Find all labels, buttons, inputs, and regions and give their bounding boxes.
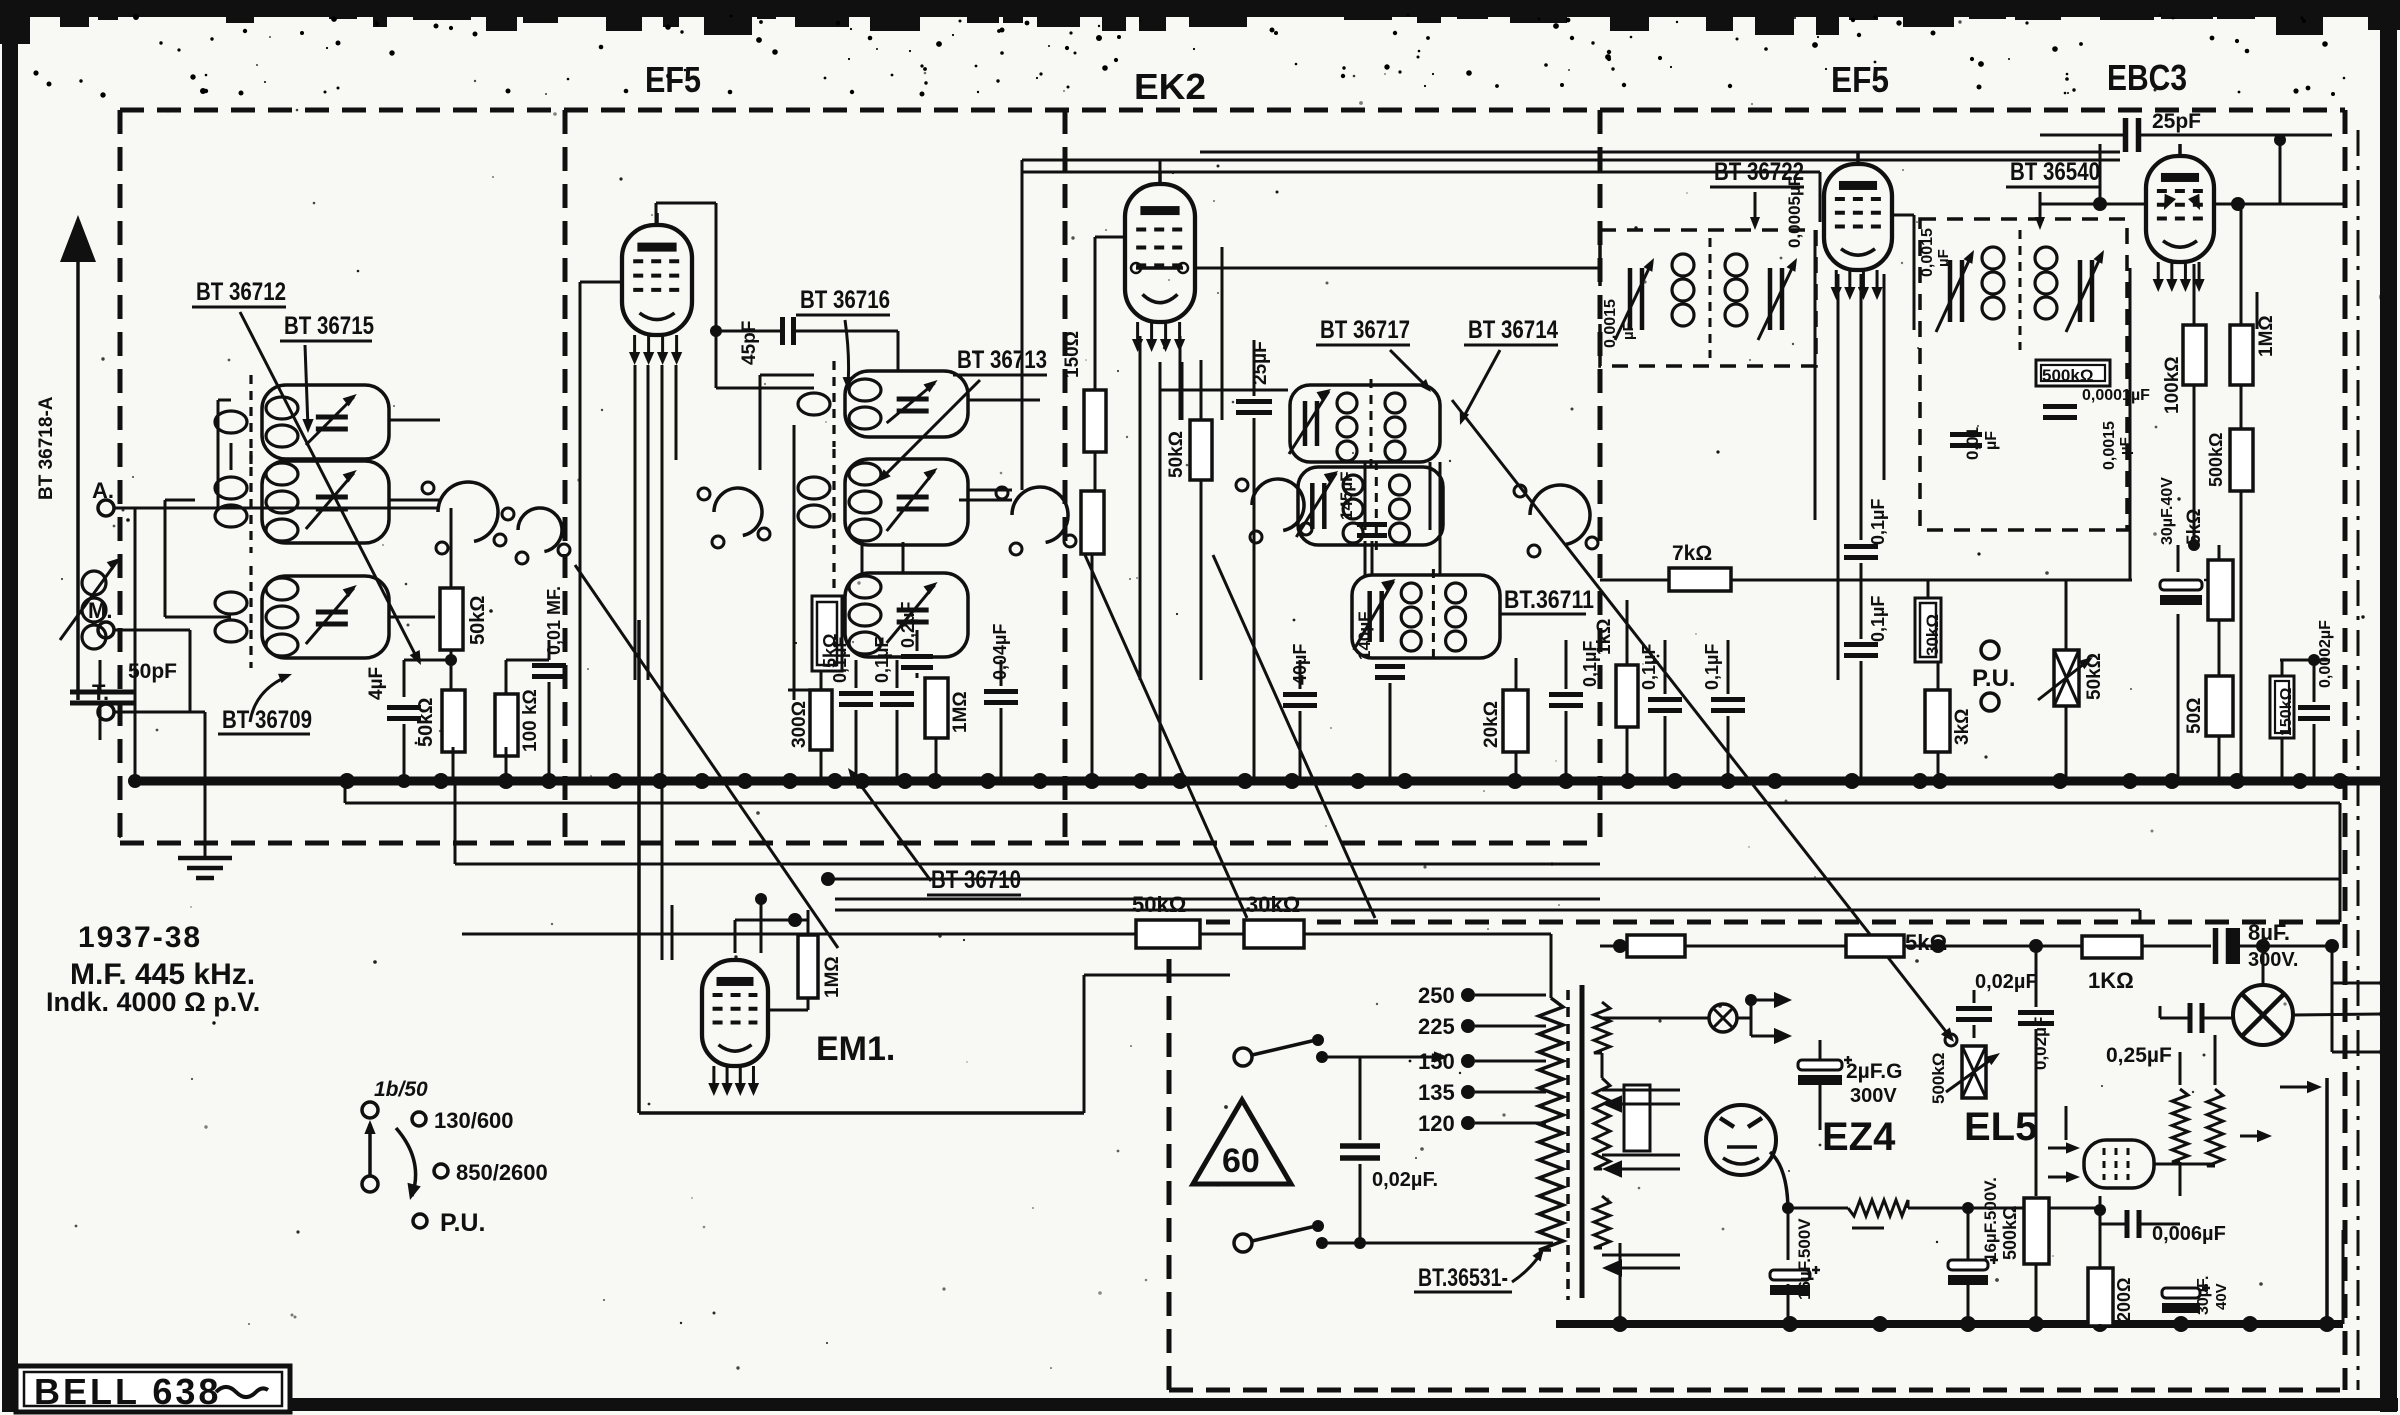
capacitor 25pF xyxy=(2123,118,2129,152)
heater wires xyxy=(1602,1089,1680,1092)
svg-text:µF: µF xyxy=(1620,322,1637,340)
svg-text:145µF: 145µF xyxy=(1337,471,1356,520)
svg-text:BT 36709: BT 36709 xyxy=(222,706,312,734)
svg-text:0,006µF: 0,006µF xyxy=(2152,1223,2226,1245)
capacitor 0.02 a xyxy=(1956,1006,1992,1011)
zigzag resistor b xyxy=(2207,1089,2223,1166)
svg-text:140µF: 140µF xyxy=(1355,611,1374,660)
wire B+ xyxy=(1600,945,1627,948)
wire EM1 feed xyxy=(1084,974,1230,977)
pointer BT 36712 xyxy=(240,312,418,660)
svg-text:20kΩ: 20kΩ xyxy=(1481,701,1502,748)
terminal PU xyxy=(1981,641,1999,659)
pointer BT 36713 xyxy=(882,380,980,478)
band switch socket S1 xyxy=(438,482,498,541)
svg-text:45pF: 45pF xyxy=(739,321,760,365)
rectifier winding rect xyxy=(1624,1085,1650,1151)
resistor 500k right xyxy=(2230,429,2253,491)
svg-text:0,1µF: 0,1µF xyxy=(1702,644,1722,690)
chassis dash-dot line xyxy=(2357,130,2360,1390)
wire 7k xyxy=(1600,579,1669,582)
resistor 1k xyxy=(1616,665,1638,727)
capacitor 25uF xyxy=(1236,399,1272,404)
frame resistor 5k xyxy=(812,596,842,671)
capacitor 4uF xyxy=(387,705,421,710)
EF5 section wires xyxy=(820,671,823,690)
antenna arrow xyxy=(76,248,80,700)
svg-text:BT 36712: BT 36712 xyxy=(196,278,286,306)
svg-text:EZ4: EZ4 xyxy=(1822,1115,1896,1159)
right border terminals xyxy=(2381,290,2395,304)
gang line 1 xyxy=(1085,555,1247,918)
varcap A right xyxy=(1768,268,1773,330)
svg-text:0,0005µF: 0,0005µF xyxy=(1785,176,1804,248)
V3 drop wires xyxy=(1626,600,1629,665)
capacitor 0.1 V3c xyxy=(1648,697,1682,702)
svg-text:BT 36713: BT 36713 xyxy=(957,346,1047,374)
dashed IF box B xyxy=(1920,219,2127,530)
wire AVC 2 xyxy=(455,863,1600,866)
frame resistor 150k xyxy=(2270,676,2294,738)
capacitor 0.006uF xyxy=(2125,1210,2130,1238)
output wires xyxy=(2099,1196,2102,1268)
svg-text:300Ω: 300Ω xyxy=(789,701,810,748)
svg-text:30kΩ: 30kΩ xyxy=(1923,614,1942,656)
resistor 300R wires xyxy=(788,689,810,692)
svg-text:BELL 638: BELL 638 xyxy=(34,1371,221,1412)
capacitor 0.1 EK2 xyxy=(1549,692,1583,697)
switch option PU xyxy=(413,1214,427,1228)
capacitor 8uF xyxy=(2213,928,2219,964)
svg-text:850/2600: 850/2600 xyxy=(456,1160,548,1185)
section box dashed bottom xyxy=(120,841,1600,846)
svg-text:1KΩ: 1KΩ xyxy=(2088,968,2134,993)
border frame xyxy=(0,0,2400,17)
section box dashed right xyxy=(2343,110,2348,1390)
wire AVC 5 xyxy=(835,909,2140,912)
capacitor 001 xyxy=(1950,432,1982,437)
svg-text:EL5: EL5 xyxy=(1964,1105,2037,1149)
svg-text:3kΩ: 3kΩ xyxy=(1952,709,1973,745)
resistor 50k frame xyxy=(1136,920,1200,948)
antenna transformer mid unit xyxy=(262,461,389,543)
svg-text:30µF.40V: 30µF.40V xyxy=(2159,477,2176,545)
svg-text:0,1µF: 0,1µF xyxy=(1639,644,1659,690)
wire AVC 3 xyxy=(828,878,2340,881)
capacitor 0.1 a xyxy=(839,691,873,696)
svg-text:50kΩ: 50kΩ xyxy=(2084,653,2105,700)
power box dashed left xyxy=(1167,922,1172,1390)
svg-text:EK2: EK2 xyxy=(1134,66,1206,107)
switch option 850/2600 xyxy=(434,1164,448,1178)
BELL 638 box xyxy=(16,1366,290,1412)
svg-text:0,1µF: 0,1µF xyxy=(1868,499,1888,545)
svg-text:BT.36531-: BT.36531- xyxy=(1418,1264,1508,1292)
resistor 7k xyxy=(1669,568,1731,591)
IF transformer 1 low unit xyxy=(845,573,968,657)
capacitor 0.04uF xyxy=(984,689,1018,694)
capacitor 140uF xyxy=(1375,664,1405,669)
section divider EF5-2 xyxy=(1598,110,1603,843)
scan speckles xyxy=(296,1230,299,1233)
capacitor 0.0001 xyxy=(2043,404,2077,409)
svg-text:2µF.G: 2µF.G xyxy=(1846,1060,1902,1083)
svg-text:µF: µF xyxy=(1983,431,2000,450)
pointer BT 36714 xyxy=(1462,350,1500,420)
pointer BT 36716 xyxy=(845,320,849,385)
svg-text:130/600: 130/600 xyxy=(434,1108,514,1133)
svg-text:30µF.: 30µF. xyxy=(2195,1276,2212,1315)
wire M xyxy=(114,629,190,632)
left wires to bus xyxy=(450,650,453,690)
svg-text:EBC3: EBC3 xyxy=(2107,57,2187,98)
svg-text:50Ω: 50Ω xyxy=(2184,698,2205,734)
zigzag resistor a xyxy=(2172,1089,2188,1162)
power box dashed top xyxy=(1169,920,2345,925)
V4 anode wire xyxy=(2179,135,2181,150)
svg-text:EF5: EF5 xyxy=(1831,59,1889,100)
svg-text:500kΩ: 500kΩ xyxy=(2042,366,2093,385)
svg-text:BT 36718-A: BT 36718-A xyxy=(36,396,57,500)
capacitor 0.02 mains xyxy=(1359,1057,1362,1140)
dashed IF box A xyxy=(1600,230,1816,366)
transformer secondary b xyxy=(1594,1078,1610,1169)
svg-text:EF5: EF5 xyxy=(645,59,701,100)
svg-text:0,0001µF: 0,0001µF xyxy=(2082,387,2150,404)
svg-text:µF: µF xyxy=(1935,249,1952,267)
pointer BT 36710 xyxy=(851,772,931,881)
capacitor 50pF xyxy=(70,690,135,695)
svg-text:1b/50: 1b/50 xyxy=(374,1078,428,1101)
resistor 500k out xyxy=(2024,1198,2049,1264)
ground bus xyxy=(131,777,2392,786)
resistor 100k xyxy=(495,694,518,756)
speaker xyxy=(2233,985,2293,1045)
svg-text:0,02µF: 0,02µF xyxy=(2031,1017,2050,1070)
tube EM1 xyxy=(702,960,768,1066)
svg-text:0,02µF.: 0,02µF. xyxy=(1372,1169,1438,1191)
resistor 5k B+ xyxy=(1627,935,1685,957)
pilot lamp xyxy=(1709,1004,1737,1032)
svg-text:1MΩ: 1MΩ xyxy=(822,956,843,998)
capacitor 0.0002 xyxy=(2298,705,2330,710)
power ground bus xyxy=(1556,1320,2343,1328)
svg-text:0,02µF: 0,02µF xyxy=(1975,971,2038,993)
resistor 20k xyxy=(1503,690,1528,752)
resistor 50k EK2 xyxy=(1190,420,1212,480)
wire AVC 1 xyxy=(345,802,2340,805)
wire coil links xyxy=(389,419,440,422)
IF1 wires xyxy=(793,425,796,700)
resistor 1M xyxy=(925,678,948,738)
tube EK2 V2 xyxy=(1125,184,1195,322)
tube EF5 V3 xyxy=(1824,164,1892,270)
wire AVC 4 xyxy=(835,898,1600,901)
IF transformer 1 top unit xyxy=(845,371,968,437)
svg-text:50kΩ: 50kΩ xyxy=(1166,431,1187,478)
svg-text:M.: M. xyxy=(88,598,112,623)
resistor 1k xyxy=(2082,936,2142,958)
section box dashed left xyxy=(118,110,123,843)
resistor 3k xyxy=(1925,690,1950,752)
wire antenna to T xyxy=(99,725,102,740)
extra section wires xyxy=(1139,336,1142,420)
EK2 top wires xyxy=(1159,160,1162,184)
fuse triangle 60 xyxy=(1193,1100,1291,1184)
right column wires xyxy=(2193,264,2196,325)
EK2 pin wires xyxy=(1095,236,1125,239)
tube EF5 V1 xyxy=(622,225,692,335)
resistor 5k right xyxy=(2208,560,2233,620)
svg-text:8µF.: 8µF. xyxy=(2248,920,2290,945)
wire A drop xyxy=(134,508,137,781)
svg-text:P.U.: P.U. xyxy=(1972,665,2016,692)
varcap A left xyxy=(1628,268,1633,330)
resistor 50R xyxy=(2206,676,2233,736)
tube EZ4 xyxy=(1706,1105,1776,1175)
svg-text:100kΩ: 100kΩ xyxy=(2162,356,2183,414)
svg-text:500kΩ: 500kΩ xyxy=(2206,433,2226,487)
antenna transformer top unit xyxy=(262,385,389,459)
svg-text:25pF: 25pF xyxy=(2152,110,2201,133)
svg-text:50kΩ: 50kΩ xyxy=(1132,892,1186,917)
svg-text:16µF.500V: 16µF.500V xyxy=(1795,1218,1814,1300)
svg-text:0,0015: 0,0015 xyxy=(1919,228,1936,277)
capacitor 145uF xyxy=(1357,522,1387,527)
svg-text:300V: 300V xyxy=(1850,1085,1897,1107)
resistor 50k second xyxy=(442,690,465,752)
wire A to switch xyxy=(114,507,437,510)
varcap B right xyxy=(2078,260,2083,322)
transformer secondary c xyxy=(1594,1196,1610,1248)
frame resistor 500k xyxy=(2036,360,2110,386)
capacitor 0.1 b xyxy=(880,691,914,696)
section divider EK2 xyxy=(1063,110,1068,843)
svg-text:150kΩ: 150kΩ xyxy=(2278,687,2295,736)
svg-text:BT 36710: BT 36710 xyxy=(931,866,1021,894)
potentiometer 50k xyxy=(2054,650,2079,706)
resistor 300R xyxy=(810,690,832,750)
oscillator coil lower xyxy=(1352,575,1500,658)
svg-text:BT.36711: BT.36711 xyxy=(1504,586,1594,614)
svg-text:150Ω: 150Ω xyxy=(1062,331,1083,378)
IF transformer 1 mid unit xyxy=(845,459,968,545)
capacitor 40uF xyxy=(1283,692,1317,697)
mains switch lower xyxy=(1234,1234,1252,1252)
svg-text:0,0015: 0,0015 xyxy=(1602,299,1619,348)
resistor 650R xyxy=(1081,491,1104,554)
svg-text:0,25µF: 0,25µF xyxy=(2106,1044,2172,1067)
svg-text:16µF.500V.: 16µF.500V. xyxy=(1981,1177,2000,1262)
socket EF5 grid xyxy=(714,488,762,536)
oscillator coil middle xyxy=(1298,467,1443,545)
V3 wires xyxy=(1857,152,1860,164)
wire T xyxy=(98,711,100,714)
svg-text:500kΩ: 500kΩ xyxy=(1929,1053,1948,1104)
svg-text:0,1µF: 0,1µF xyxy=(872,637,892,683)
elco 2uF xyxy=(1798,1060,1842,1070)
antenna coil xyxy=(82,571,106,595)
socket EF5 out xyxy=(1012,487,1068,542)
resistor 30k frame xyxy=(1244,920,1304,948)
svg-text:BT 36715: BT 36715 xyxy=(284,312,374,340)
svg-text:BT 36540: BT 36540 xyxy=(2010,158,2100,186)
gang line 2 xyxy=(1213,555,1375,918)
oscillator coil upper xyxy=(1290,385,1440,462)
elco 16uF a xyxy=(1770,1270,1810,1280)
tube EBC3 V4 xyxy=(2146,156,2214,262)
svg-text:EM1.: EM1. xyxy=(816,1030,895,1068)
antenna transformer low unit xyxy=(262,576,389,658)
svg-text:BT 36717: BT 36717 xyxy=(1320,316,1410,344)
svg-text:0,1µF: 0,1µF xyxy=(830,637,850,683)
section box dashed top xyxy=(120,108,2345,113)
transformer primary xyxy=(1539,998,1563,1250)
capacitor 0.1 V3d xyxy=(1711,697,1745,702)
switch option 130/600 xyxy=(412,1112,426,1126)
transformer core xyxy=(1566,990,1570,1300)
potentiometer 500k out xyxy=(1945,1034,1957,1046)
resistor 1M EM1 xyxy=(798,935,818,998)
svg-text:0,0002µF: 0,0002µF xyxy=(2317,620,2334,688)
resistor 200R xyxy=(2088,1268,2113,1326)
svg-text:BT 36716: BT 36716 xyxy=(800,286,890,314)
wire risers xyxy=(344,781,347,803)
svg-text:500kΩ: 500kΩ xyxy=(2000,1206,2020,1260)
svg-text:Indk. 4000 Ω p.V.: Indk. 4000 Ω p.V. xyxy=(46,987,260,1017)
svg-text:T.: T. xyxy=(92,680,109,705)
gang line 4 xyxy=(575,565,838,948)
EBC3 grid line xyxy=(2040,203,2148,206)
svg-text:7kΩ: 7kΩ xyxy=(1672,542,1712,565)
svg-text:0,1µF: 0,1µF xyxy=(1868,596,1888,642)
svg-text:40V: 40V xyxy=(2213,1283,2230,1310)
elco 16uF b xyxy=(1948,1260,1988,1270)
EM1 wires xyxy=(807,910,810,920)
svg-text:135: 135 xyxy=(1418,1080,1455,1105)
svg-text:120: 120 xyxy=(1418,1111,1455,1136)
resistor 1M right xyxy=(2230,325,2253,385)
band switch socket S2 xyxy=(518,508,562,552)
svg-text:100 kΩ: 100 kΩ xyxy=(520,689,541,752)
IF coils A xyxy=(1672,254,1694,276)
choke resistor xyxy=(1848,1200,1908,1216)
EK2 diode line xyxy=(1136,266,1183,270)
svg-text:0,0015: 0,0015 xyxy=(2101,421,2118,470)
capacitor 0.01 xyxy=(532,663,566,668)
socket EK2 a xyxy=(1252,479,1304,530)
resistor 150R xyxy=(1084,390,1106,452)
svg-text:1937-38: 1937-38 xyxy=(78,921,202,954)
mains switch upper xyxy=(1234,1048,1252,1066)
svg-text:30kΩ: 30kΩ xyxy=(1246,892,1300,917)
wire to EM1 xyxy=(637,620,641,1113)
svg-text:50kΩ: 50kΩ xyxy=(467,596,489,645)
EK2 lower wires xyxy=(1299,660,1302,689)
wire anode top xyxy=(656,202,716,205)
ground symbol xyxy=(178,856,232,861)
capacitor 0.1 V3a xyxy=(1844,544,1878,549)
pointer BT 36715 xyxy=(305,345,308,428)
svg-text:BT 36714: BT 36714 xyxy=(1468,316,1558,344)
svg-text:300V.: 300V. xyxy=(2248,949,2298,971)
svg-text:1MΩ: 1MΩ xyxy=(950,691,971,733)
svg-text:0,01 MF.: 0,01 MF. xyxy=(544,586,564,655)
socket EK2 b xyxy=(1530,485,1590,544)
svg-text:4µF: 4µF xyxy=(366,667,387,700)
elco 30uF xyxy=(2160,580,2202,590)
svg-text:P.U.: P.U. xyxy=(440,1209,485,1237)
EBC3 diode arrows xyxy=(2158,194,2176,213)
resistor 100k right xyxy=(2183,325,2206,385)
svg-text:225: 225 xyxy=(1418,1014,1455,1039)
power wires xyxy=(1601,1053,1604,1078)
svg-text:200Ω: 200Ω xyxy=(2114,1278,2134,1322)
elco 30uF out xyxy=(2162,1288,2200,1298)
gang line 3 xyxy=(1452,400,1951,1038)
pointer BT 36717 xyxy=(1390,350,1428,388)
frame resistor 30k xyxy=(1915,598,1941,662)
resistor 50k first xyxy=(440,588,463,650)
svg-text:1kΩ: 1kΩ xyxy=(1594,619,1615,655)
varcap B left xyxy=(1948,260,1953,322)
svg-text:0,2µF: 0,2µF xyxy=(898,602,918,648)
transformer secondary a xyxy=(1594,1002,1610,1053)
IF coils B xyxy=(1982,247,2004,269)
capacitor 0.2uF xyxy=(901,654,933,659)
capacitor 0.1 V3b xyxy=(1844,642,1878,647)
svg-text:60: 60 xyxy=(1222,1142,1260,1180)
phase tube xyxy=(2084,1140,2154,1188)
svg-text:1MΩ: 1MΩ xyxy=(2256,315,2277,357)
capacitor 0.02 b xyxy=(2018,1010,2054,1015)
section divider EF5 xyxy=(563,110,568,843)
power box dashed bottom xyxy=(1169,1388,2345,1393)
svg-text:150: 150 xyxy=(1418,1049,1455,1074)
svg-text:250: 250 xyxy=(1418,983,1455,1008)
